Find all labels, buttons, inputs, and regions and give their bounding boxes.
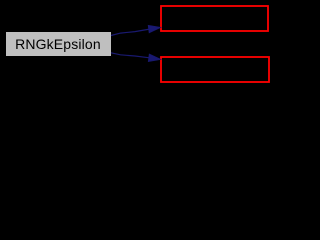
arrowhead at N3: [148, 54, 161, 62]
node RNGkEpsilon (current class, grey75 filled box): [6, 32, 112, 57]
svg-text:RNGkEpsilon: RNGkEpsilon: [15, 36, 101, 52]
wire segment: [111, 29, 150, 35]
node N2 (truncated class, red border, top right): [161, 6, 268, 31]
wire segment: [111, 53, 150, 58]
node N3 (truncated class, red border, bottom right): [161, 57, 269, 82]
wire edge RNGkEpsilon to N2: [111, 25, 161, 35]
wire edge RNGkEpsilon to N3: [111, 53, 161, 62]
arrowhead at N2: [148, 25, 161, 33]
node RNGkEpsilon box: [6, 32, 112, 57]
